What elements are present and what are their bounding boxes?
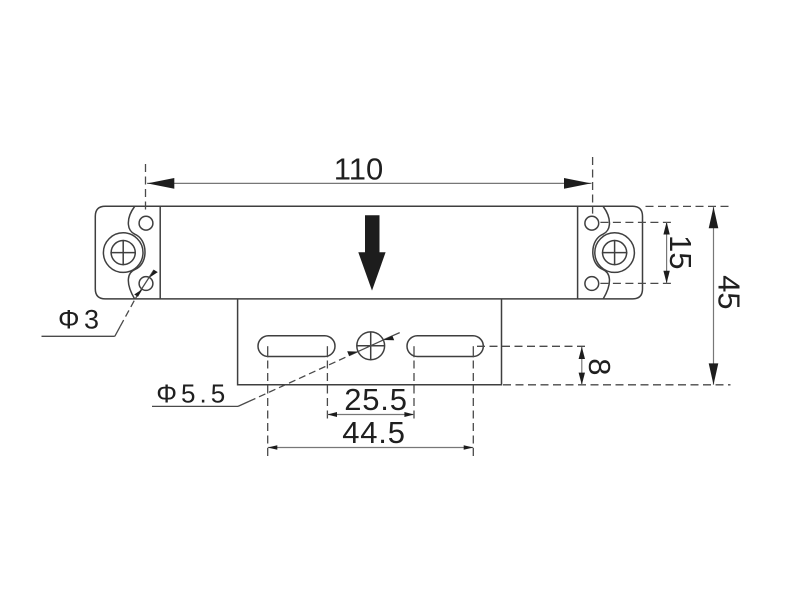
svg-text:8: 8: [582, 358, 617, 375]
svg-text:25.5: 25.5: [344, 382, 408, 417]
svg-text:45: 45: [711, 275, 746, 309]
svg-text:Φ5.5: Φ5.5: [156, 379, 229, 409]
svg-text:15: 15: [663, 235, 698, 269]
svg-text:44.5: 44.5: [342, 415, 406, 450]
svg-text:110: 110: [334, 152, 383, 187]
svg-text:Φ3: Φ3: [58, 305, 104, 335]
